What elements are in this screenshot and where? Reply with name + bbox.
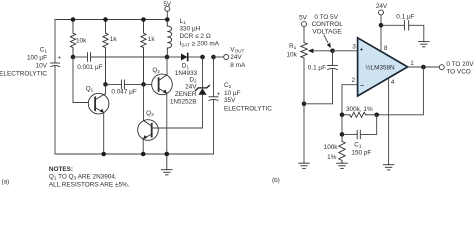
ground supply cap	[419, 42, 430, 47]
node dot cap branch	[340, 132, 345, 137]
wire output	[214, 56, 224, 58]
wire pin4 to ground	[388, 78, 390, 165]
wire left vertical C1 branch upper	[54, 20, 56, 63]
potentiometer wiper arrow	[308, 49, 333, 54]
wire pot bottom lead	[303, 58, 305, 163]
zener diode D2 1N5252B	[196, 85, 210, 94]
label D1 values	[175, 62, 198, 77]
wire cap branch right lead	[361, 115, 377, 135]
svg-text:24V: 24V	[376, 3, 388, 10]
resistor 1k first	[103, 20, 108, 85]
inductor L1 330uH	[167, 20, 171, 58]
label R1 values	[286, 43, 297, 58]
wire C2 upper lead	[213, 57, 215, 97]
capacitor C1 100uF electrolytic	[51, 63, 60, 67]
node dot zener top	[200, 55, 205, 60]
wire feedback from output	[379, 67, 424, 115]
svg-text:ELECTROLYTIC: ELECTROLYTIC	[224, 106, 272, 113]
svg-text:NOTES:: NOTES:	[49, 166, 73, 173]
svg-text:10k: 10k	[76, 38, 87, 45]
wire 300k node A down	[341, 115, 343, 142]
node dot Q2 base junction	[141, 82, 146, 87]
wire 0.047 cap left lead	[106, 83, 122, 85]
node dot 1k second top	[141, 17, 146, 22]
svg-text:150 pF: 150 pF	[351, 150, 371, 157]
wire Q3 emitter down	[142, 139, 144, 154]
svg-text:300k, 1%: 300k, 1%	[346, 106, 373, 113]
svg-text:1N4933: 1N4933	[175, 70, 198, 77]
wire Q3 collector	[143, 84, 145, 120]
svg-text:D2: D2	[189, 76, 197, 83]
svg-text:1%: 1%	[327, 154, 337, 161]
label L1 values	[180, 18, 220, 48]
capacitor 0.1uF input	[328, 65, 338, 69]
svg-text:1k: 1k	[148, 36, 156, 43]
transistor Q2	[152, 74, 173, 95]
svg-text:C1: C1	[40, 47, 48, 54]
svg-text:24V: 24V	[230, 54, 242, 61]
wire pin2 feedback	[342, 85, 357, 113]
label control voltage	[312, 14, 344, 36]
svg-text:330 µH: 330 µH	[180, 25, 201, 32]
resistor 1k second	[141, 20, 146, 85]
wire cap branch left lead	[342, 133, 357, 135]
capacitor C1 150pF	[357, 130, 360, 138]
node dot wiper	[330, 49, 335, 54]
svg-text:CONTROL: CONTROL	[312, 21, 344, 28]
svg-text:10k: 10k	[286, 51, 297, 58]
capacitor 0.001uF	[88, 53, 91, 62]
svg-text:0.1 µF: 0.1 µF	[308, 65, 326, 72]
svg-text:0.001 µF: 0.001 µF	[77, 64, 102, 71]
label C1 values	[0, 47, 48, 78]
node dot rail Q3 emitter	[141, 152, 146, 157]
label output to VCO	[446, 61, 474, 76]
svg-text:(a): (a)	[2, 178, 10, 185]
svg-text:10 µF: 10 µF	[224, 90, 241, 97]
svg-text:(b): (b)	[272, 177, 280, 184]
wire bottom rail (a)	[55, 153, 214, 155]
wire signal line to switch node	[91, 56, 167, 58]
terminal VOUT	[224, 55, 229, 60]
svg-text:100k: 100k	[324, 144, 339, 151]
label notes	[49, 166, 130, 189]
svg-text:−: −	[360, 83, 364, 90]
resistor 10k	[70, 20, 75, 58]
svg-text:2: 2	[351, 77, 355, 84]
svg-text:+: +	[360, 46, 364, 53]
capacitor 0.1uF supply	[404, 21, 408, 30]
svg-text:10V: 10V	[36, 62, 48, 69]
svg-text:Q1 TO Q3 ARE 2N3904.: Q1 TO Q3 ARE 2N3904.	[49, 174, 117, 181]
svg-text:R1: R1	[289, 43, 297, 50]
svg-text:Q1: Q1	[86, 85, 94, 92]
svg-text:1k: 1k	[110, 36, 118, 43]
node dot rail Q1 emitter	[101, 152, 106, 157]
ground 100k	[337, 163, 348, 168]
svg-text:0 TO 20V: 0 TO 20V	[446, 61, 474, 68]
wire pin8 supply	[380, 25, 382, 51]
svg-text:C2: C2	[224, 82, 232, 89]
capacitor C2 10uF electrolytic	[209, 97, 218, 101]
node dot feedback A	[340, 113, 345, 118]
wire signal line left	[73, 56, 87, 58]
svg-text:5V: 5V	[299, 14, 308, 21]
ground (a)	[162, 154, 173, 175]
svg-text:0 TO 5V: 0 TO 5V	[314, 14, 338, 21]
control voltage pointer arrow	[324, 35, 331, 48]
svg-text:ISAT ≥ 200 mA: ISAT ≥ 200 mA	[180, 41, 220, 48]
wire Q1 collector up	[105, 84, 107, 93]
svg-text:+: +	[217, 91, 221, 98]
wire C2 lower lead	[213, 100, 215, 154]
resistor 100k	[339, 141, 345, 163]
svg-text:8 mA: 8 mA	[230, 62, 246, 69]
svg-text:0.047 µF: 0.047 µF	[111, 89, 136, 96]
capacitor 0.047uF	[121, 80, 124, 89]
diode D1 1N4933	[167, 54, 203, 61]
wire Q2 base line	[125, 83, 158, 85]
svg-text:8: 8	[384, 45, 388, 52]
wire bypass cap top lead	[332, 51, 334, 65]
svg-text:1N5252B: 1N5252B	[170, 99, 197, 106]
label VOUT values	[230, 46, 246, 69]
wire bypass cap bottom lead	[304, 69, 333, 103]
node dot rail ground	[165, 152, 170, 157]
svg-text:4: 4	[391, 79, 395, 86]
node dot C2 top	[211, 55, 216, 60]
label 100k 1%	[324, 144, 339, 161]
node dot pot cap junction	[302, 102, 307, 107]
ground pot (b)	[299, 163, 310, 168]
wire Q1 emitter down	[103, 112, 105, 154]
label C2 values	[224, 82, 272, 113]
node dot switch node	[165, 55, 170, 60]
transistor Q1	[88, 93, 109, 114]
label D2 values	[170, 76, 197, 105]
wire Q3 base to zener	[152, 95, 202, 128]
svg-text:+: +	[58, 55, 62, 62]
svg-text:0.1 µF: 0.1 µF	[396, 14, 414, 21]
svg-text:TO VCO: TO VCO	[446, 68, 470, 75]
node dot 10k top	[71, 17, 76, 22]
transistor Q3 mirrored	[138, 120, 159, 141]
svg-text:ZENER: ZENER	[175, 91, 197, 98]
wire Q2 collector up	[166, 57, 168, 75]
wire wiper to pin3	[333, 50, 358, 52]
label C1 150pF values	[351, 142, 371, 157]
potentiometer R1 10k	[301, 43, 307, 59]
svg-text:24V: 24V	[185, 84, 197, 91]
op-amp U1 half LM358N	[358, 38, 408, 96]
svg-text:L1: L1	[180, 18, 187, 25]
wire Q2 emitter down	[166, 93, 168, 154]
svg-text:Q3: Q3	[146, 110, 154, 117]
wire top rail (a)	[55, 19, 167, 21]
svg-text:D1: D1	[182, 62, 190, 69]
svg-text:VOUT: VOUT	[230, 46, 244, 53]
node dot 1k first top	[103, 17, 108, 22]
node dot Q1 collector	[103, 82, 108, 87]
wire output pin1	[408, 66, 440, 68]
node dot 10k bottom	[71, 55, 76, 60]
wire 5V terminal (b)	[303, 27, 305, 43]
svg-text:C1: C1	[354, 142, 362, 149]
power terminal 5V (a)	[165, 6, 170, 19]
svg-text:35V: 35V	[224, 97, 236, 104]
svg-text:1: 1	[410, 60, 414, 67]
svg-text:Q2: Q2	[152, 67, 160, 74]
wire supply cap to ground	[409, 25, 424, 41]
svg-text:5V: 5V	[163, 1, 172, 8]
node dot feedback B	[374, 113, 379, 118]
svg-text:DCR ≤ 2 Ω: DCR ≤ 2 Ω	[180, 33, 211, 40]
wire Q1 base	[73, 57, 95, 103]
svg-text:3: 3	[352, 44, 356, 51]
wire zener upper lead	[202, 57, 204, 87]
svg-text:VOLTAGE: VOLTAGE	[312, 29, 341, 36]
svg-text:ALL RESISTORS ARE ±5%.: ALL RESISTORS ARE ±5%.	[49, 182, 130, 188]
power terminal 24V	[379, 10, 384, 25]
terminal output to VCO	[439, 65, 444, 70]
wire 24V to bypass cap	[381, 24, 404, 26]
node dot L1 top	[165, 17, 170, 22]
power terminal 5V (b)	[302, 22, 307, 27]
svg-text:100 µF: 100 µF	[27, 55, 47, 62]
node dot output	[421, 65, 426, 70]
node dot 24V rail	[379, 23, 384, 28]
wire left vertical C1 branch lower	[54, 66, 56, 154]
svg-text:½LM358N: ½LM358N	[365, 64, 395, 72]
resistor 300k feedback	[342, 112, 377, 117]
ground pin4	[383, 165, 394, 170]
svg-text:ELECTROLYTIC: ELECTROLYTIC	[0, 70, 47, 77]
